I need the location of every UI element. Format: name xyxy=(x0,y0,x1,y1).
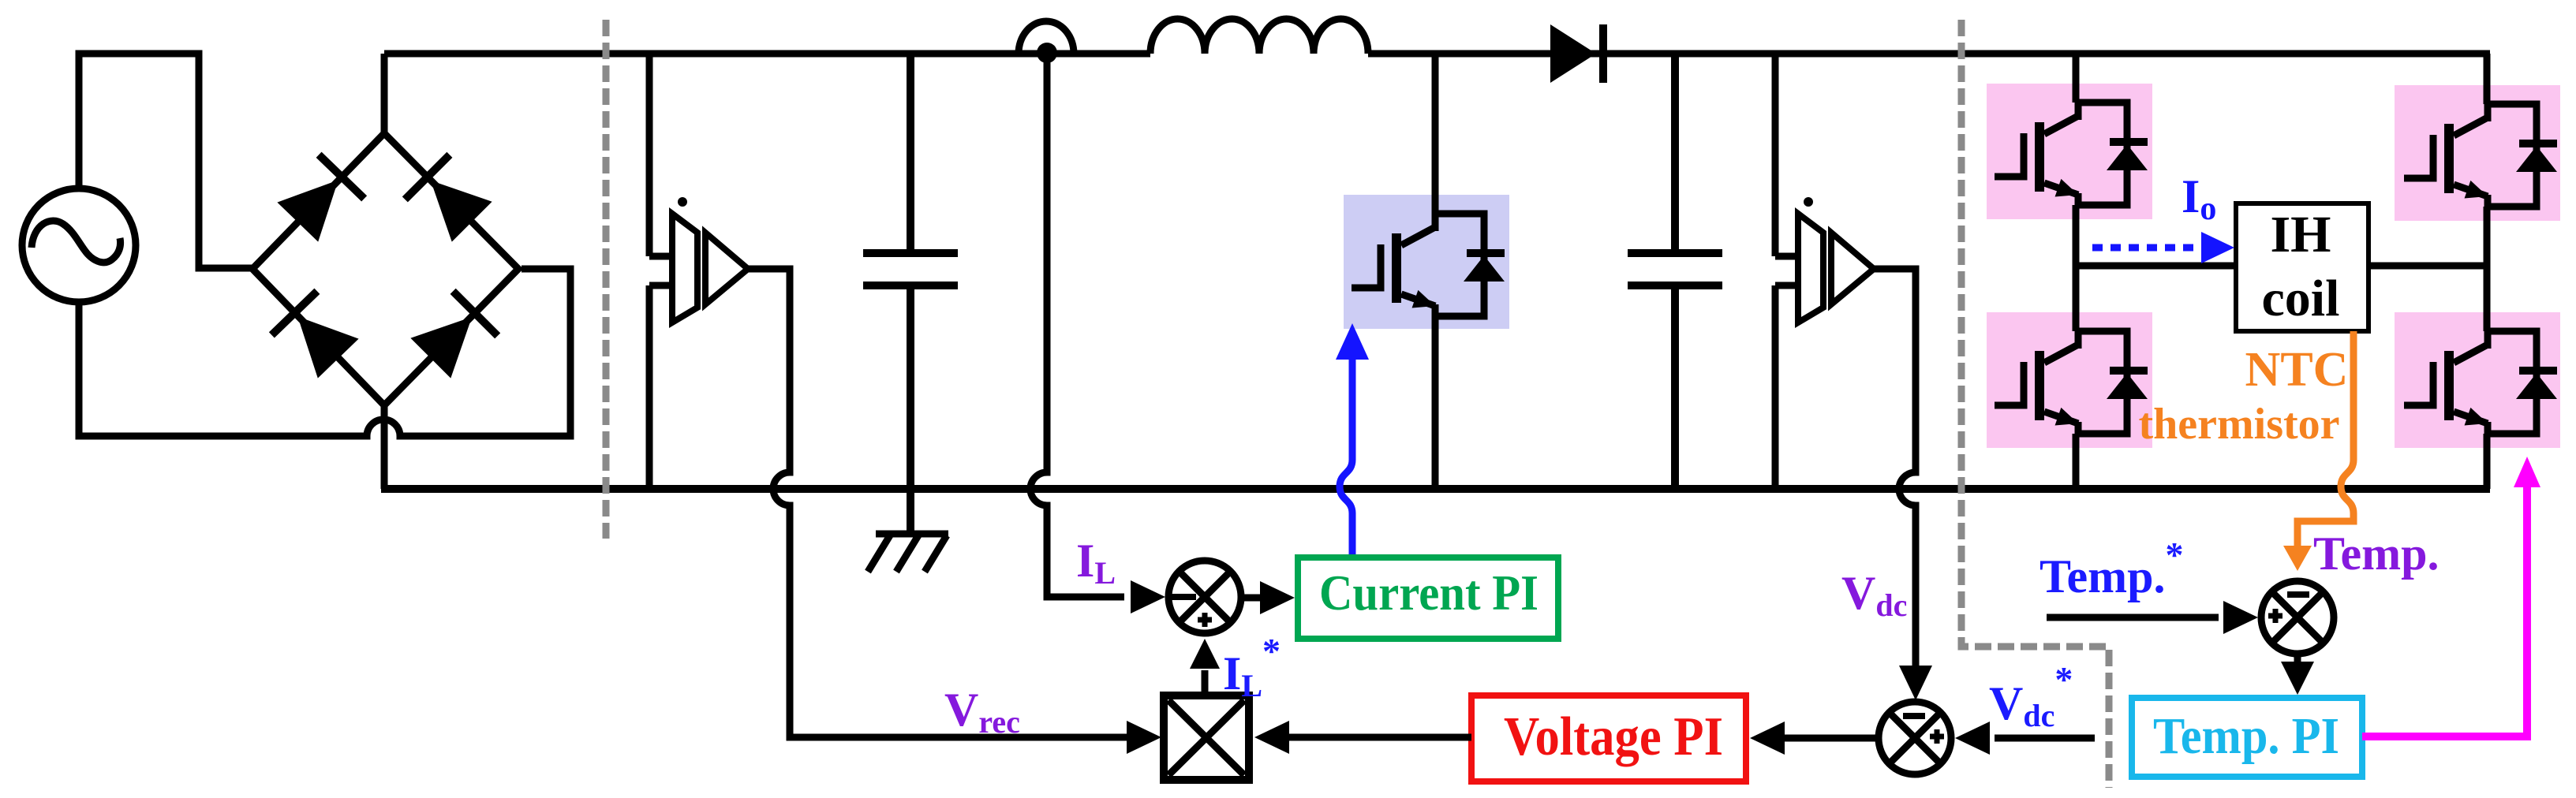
summing junction S1 (current) xyxy=(1168,561,1241,633)
wire: S3 output down xyxy=(2294,654,2301,664)
svg-text:Temp. PI: Temp. PI xyxy=(2153,707,2339,765)
arrow: magenta up into Q4 xyxy=(2514,457,2540,487)
transistor Q2 internals xyxy=(1995,328,2148,437)
wire: blue gate line from Current PI with wiggle over bottom rail xyxy=(1340,356,1352,557)
arrow: Vdc* into summing junction xyxy=(1955,722,1990,755)
boost IGBT highlight box xyxy=(1344,195,1509,329)
transistor Q5 (boost IGBT) xyxy=(1352,211,1505,319)
diode D2 (bridge top-right) xyxy=(402,152,495,244)
summing junction S3 (temperature) xyxy=(2261,581,2334,654)
arrow: into Voltage PI xyxy=(1750,722,1785,755)
arrow: gate drive (blue) into boost IGBT xyxy=(1336,323,1369,360)
wire: left leg midpoint to IH coil xyxy=(2076,263,2234,270)
transistor Q3 internals xyxy=(2404,101,2557,210)
arrow: into multiplier right xyxy=(1254,721,1289,754)
op-amp U1 (input voltage sensor) xyxy=(649,197,748,323)
summing junction S2 (Vdc) xyxy=(1879,702,1951,774)
wire: inverter right leg xyxy=(2484,54,2491,489)
arrow: Vrec into multiplier xyxy=(1127,721,1161,754)
arrow: Io dashed (output current) xyxy=(2092,244,2205,252)
transistor Q5 (boost IGBT) wires xyxy=(1432,54,1439,489)
svg-text:Vrec: Vrec xyxy=(944,684,1020,740)
svg-text:thermistor: thermistor xyxy=(2138,400,2339,449)
svg-text:Temp.: Temp. xyxy=(2313,528,2440,580)
wire: bottom rail xyxy=(381,485,2490,493)
wire: multiplier output up (IL*) xyxy=(1202,670,1209,695)
wire: sensor U1 output (Vrec) with hop over bottom rail xyxy=(748,269,1130,737)
wire: sensor U2 input taps from rails xyxy=(1775,54,1798,489)
wire: Vdc* input line xyxy=(1995,735,2095,742)
svg-text:IH: IH xyxy=(2270,206,2331,263)
capacitor C1 xyxy=(863,54,958,534)
inverter IGBT highlight box Q2 (bottom-left) xyxy=(1987,312,2152,448)
multiplier M1 xyxy=(1164,695,1249,780)
wire: Voltage PI output to multiplier xyxy=(1289,734,1471,741)
wire: inverter left leg xyxy=(2073,54,2080,489)
current sensor CT (loop and dot on top rail) xyxy=(1019,21,1074,54)
arrow: into Current PI xyxy=(1260,581,1295,614)
wire: bridge DC- down to bottom rail xyxy=(381,405,388,489)
boundary dashed line 1 xyxy=(603,20,610,539)
wire: top rail xyxy=(384,50,2490,58)
wire: AC source top loop to bridge left vertex xyxy=(79,54,252,268)
svg-text:Temp.*: Temp.* xyxy=(2039,535,2184,602)
wire: sensor U2 output (Vdc) with hop over bottom rail xyxy=(1874,269,1916,667)
svg-text:Vdc: Vdc xyxy=(1841,567,1907,623)
wire: sensor U1 input taps from rails xyxy=(649,54,672,489)
transistor Q1 internals xyxy=(1995,99,2148,208)
Temp. PI box xyxy=(2132,698,2362,777)
arrow: IL* into summing junction S1 xyxy=(1190,639,1220,669)
capacitor C2 xyxy=(1628,54,1722,489)
Voltage PI box xyxy=(1471,695,1746,781)
wire: IH coil to right leg midpoint xyxy=(2368,263,2487,270)
svg-text:NTC: NTC xyxy=(2245,343,2349,397)
svg-text:Current PI: Current PI xyxy=(1319,565,1538,621)
arrow: Temp into summing junction (orange) xyxy=(2283,546,2312,571)
arrow: IL into summing junction xyxy=(1131,580,1165,613)
svg-text:Vdc*: Vdc* xyxy=(1989,659,2073,733)
diode D4 (bridge bottom-right) xyxy=(409,289,501,381)
svg-text:Voltage PI: Voltage PI xyxy=(1504,707,1723,767)
ac source VS xyxy=(22,188,136,302)
inductor L1 xyxy=(1150,19,1368,54)
wire: AC source bottom loop to bridge right vertex (hop over bridge negative wire) xyxy=(79,269,570,436)
op-amp U2 (Vdc voltage sensor) xyxy=(1775,197,1874,323)
inverter IGBT highlight box Q4 (bottom-right) xyxy=(2395,312,2560,448)
ground xyxy=(868,534,948,572)
diode D3 (bridge bottom-left) xyxy=(269,289,361,381)
svg-text:coil: coil xyxy=(2262,270,2340,327)
wire: NTC temp line (orange) from IH coil with wiggle over bottom rail xyxy=(2297,331,2354,549)
diode D5 (boost diode) xyxy=(1550,24,1596,83)
inverter IGBT highlight box Q1 (top-left) xyxy=(1987,84,2152,219)
Current PI box xyxy=(1298,557,1558,639)
diode D1 (bridge top-left) xyxy=(275,152,368,244)
wire: S1 output to Current PI xyxy=(1242,595,1261,602)
inverter IGBT highlight box Q3 (top-right) xyxy=(2395,85,2560,221)
wire: IL sense line with hop over bottom rail xyxy=(1030,54,1124,597)
svg-text:Io: Io xyxy=(2182,170,2216,227)
wire: Temp.* input line xyxy=(2047,614,2219,621)
svg-text:IL: IL xyxy=(1076,535,1116,591)
wire: S2 output left to Voltage PI xyxy=(1785,735,1878,742)
boundary dashed line 2 xyxy=(1961,20,2109,788)
svg-text:IL*: IL* xyxy=(1223,631,1281,703)
IH coil box xyxy=(2236,203,2368,331)
transistor Q4 internals xyxy=(2404,328,2557,437)
wire: Temp PI output (magenta) to Q4 gate xyxy=(2362,473,2527,736)
arrow: S3 output into Temp PI xyxy=(2281,662,2314,695)
wire: bridge DC+ to top rail xyxy=(381,54,388,133)
arrow: Temp.* into summing junction xyxy=(2223,601,2258,634)
wire: bridge diamond edges xyxy=(252,133,518,405)
arrow: Vdc down into summing junction xyxy=(1899,666,1932,700)
